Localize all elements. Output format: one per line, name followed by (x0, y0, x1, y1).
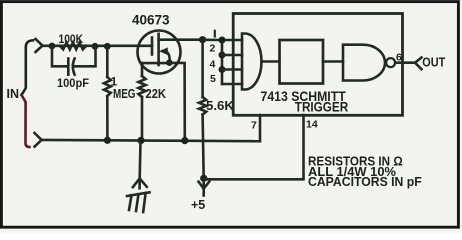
node: pin2 dot (219, 52, 226, 59)
resistor R 1MEG wire (106, 46, 109, 140)
resistor R 100K (60, 43, 86, 50)
input cable upper segment (22, 40, 34, 95)
node: 1MEG bottom dot (104, 137, 111, 144)
svg-text:100K: 100K (59, 34, 84, 46)
wire: pin5 stub (222, 83, 242, 86)
square block (280, 40, 324, 84)
svg-text:MEG: MEG (113, 87, 136, 101)
svg-text:2: 2 (210, 43, 216, 55)
+5 trident terminal (199, 181, 210, 195)
svg-text:6: 6 (396, 52, 402, 64)
ground trident terminal (133, 141, 147, 188)
node: 22K/ground dot (137, 137, 144, 144)
Q1 substrate lead to ground rail (169, 63, 184, 140)
resistor R 1MEG zigzag (104, 77, 111, 96)
wire: pin4 stub (222, 68, 242, 71)
NAND output bubble (386, 58, 395, 67)
Q1 channel bar (157, 34, 160, 65)
node: 100K right junction (92, 43, 99, 50)
Q1 substrate arrow (163, 51, 170, 62)
wire: +5 junction to pin14 riser (204, 115, 304, 179)
transistor Q1 40673 MOSFET circle (138, 31, 181, 74)
IC box 7413 (233, 14, 402, 116)
input terminal bottom (35, 133, 42, 147)
wire: pin7 riser (259, 115, 262, 141)
wire: top input line (43, 44, 153, 47)
svg-text:40673: 40673 (132, 13, 170, 28)
Q1 gate bar (151, 38, 154, 55)
svg-text:7: 7 (251, 120, 257, 132)
capacitor C 100pF plates (68, 59, 74, 75)
resistor R 22K zigzag (138, 76, 145, 97)
node: substrate-source dot (166, 59, 173, 66)
svg-text:TRIGGER: TRIGGER (295, 100, 349, 115)
svg-text:+5: +5 (191, 198, 205, 212)
Q1 source line inside (142, 62, 169, 65)
svg-text:14: 14 (306, 119, 318, 131)
wire: pin riser (221, 40, 224, 84)
input terminal top (36, 39, 43, 52)
wire: drain junction to pin1 riser (203, 38, 242, 41)
wire: pin2 stub (222, 54, 242, 57)
node: pin4 dot (219, 66, 226, 73)
node: 100K left junction (49, 43, 56, 50)
svg-text:100pF: 100pF (57, 78, 89, 90)
capacitor C 100pF loop wiring (52, 46, 96, 66)
input cable lower segment (maroon) (22, 95, 30, 147)
node: substrate rail dot (181, 137, 188, 144)
chassis ground symbol (127, 192, 150, 212)
pin label 1 (214, 31, 216, 37)
svg-text:OUT: OUT (422, 55, 445, 70)
node: drain junction (199, 36, 206, 43)
svg-text:IN: IN (7, 87, 20, 101)
svg-text:22K: 22K (146, 87, 167, 101)
svg-text:4: 4 (210, 59, 216, 71)
svg-text:CAPACITORS IN pF: CAPACITORS IN pF (308, 174, 422, 189)
NAND gate body (343, 45, 385, 81)
Q1 drain lead to junction (159, 38, 203, 41)
node: 1MEG top junction (104, 43, 111, 50)
AND gate U1a body (242, 34, 262, 90)
wire: square to NAND (323, 60, 343, 63)
svg-text:5.6K: 5.6K (206, 99, 234, 113)
svg-text:5: 5 (210, 73, 216, 85)
wire: gate output to square (262, 60, 280, 63)
resistor R 5.6K wire (203, 40, 204, 179)
output terminal (415, 58, 422, 70)
wire: bubble to output terminal (395, 61, 415, 64)
node: +5 junction (200, 175, 207, 182)
node: pin1 riser dot (219, 37, 226, 44)
Q1 source lead down (141, 63, 144, 140)
ground rail (42, 140, 260, 141)
resistor R 5.6K zigzag (199, 97, 206, 115)
